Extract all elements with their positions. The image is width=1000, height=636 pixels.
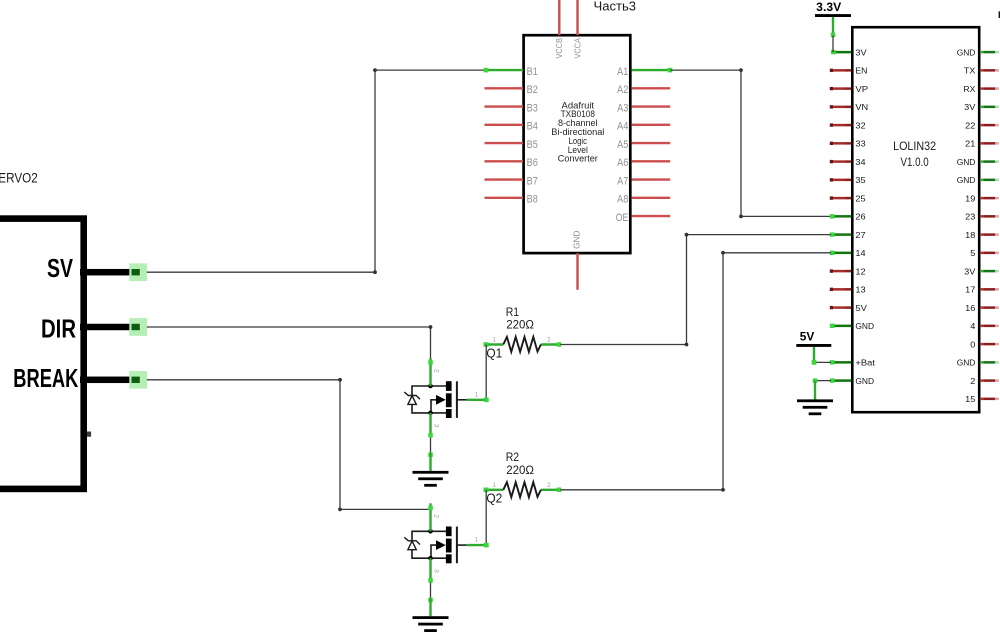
svg-text:12: 12 — [855, 266, 865, 276]
U2 pin +Bat (left row 17) — [830, 358, 876, 368]
wire Q2 source to ground — [428, 583, 433, 616]
Q2 source junction — [428, 556, 433, 561]
wire 5V to U2 pin +Bat — [814, 361, 831, 363]
svg-text:EN: EN — [855, 66, 867, 76]
svg-text:220Ω: 220Ω — [506, 319, 534, 332]
U2 pin 15 (right row 19) — [965, 394, 999, 404]
svg-text:SV: SV — [47, 253, 73, 283]
U2 pin 26 (left row 9) — [830, 212, 866, 222]
svg-text:VCCB: VCCB — [555, 38, 564, 59]
resistor R2 220&#937; — [484, 451, 562, 497]
U2 pin GND (right row 7) — [957, 175, 999, 185]
svg-text:TX: TX — [964, 66, 976, 76]
junction bend (340,379.8) — [338, 378, 342, 382]
svg-text:220Ω: 220Ω — [506, 464, 534, 477]
transistor Q1 N-MOSFET — [404, 358, 488, 438]
svg-text:5V: 5V — [800, 331, 815, 343]
svg-text:17: 17 — [965, 285, 975, 295]
svg-text:27: 27 — [855, 230, 865, 240]
U2 pin 27 (left row 10) — [830, 230, 866, 240]
junction bend (340,509.4) — [338, 508, 342, 512]
U1 pin GND — [572, 231, 582, 290]
pin BREAK of SERVO2 — [13, 363, 147, 393]
svg-text:3: 3 — [432, 424, 439, 428]
svg-text:3V: 3V — [964, 266, 975, 276]
svg-text:32: 32 — [855, 120, 865, 130]
Q2 gate stub (pin 1) — [467, 544, 487, 546]
svg-text:GND: GND — [572, 231, 582, 249]
svg-text:2: 2 — [547, 337, 551, 344]
svg-text:VN: VN — [855, 102, 868, 112]
U1 pin B8 — [485, 194, 538, 206]
svg-text:26: 26 — [855, 212, 865, 222]
wire BREAK to Q2 drain — [147, 378, 431, 511]
wire 3.3V to U2 pin 3V — [832, 36, 834, 53]
svg-text:1: 1 — [475, 537, 479, 544]
U2 pin VP (left row 2) — [830, 84, 869, 94]
U2 pin 5V (left row 14) — [830, 303, 867, 313]
label LOLIN32 V1.0.0 — [893, 139, 936, 169]
svg-text:A7: A7 — [617, 175, 628, 187]
svg-text:33: 33 — [855, 139, 865, 149]
U2 pin RX (right row 2) — [963, 84, 998, 94]
wire DIR to Q1 drain — [147, 325, 433, 361]
junction bend (430.5,327) — [429, 325, 433, 329]
U2 pin GND (left row 15) — [830, 321, 874, 331]
junction bend (375,272) — [373, 270, 377, 274]
U2 pin 16 (right row 14) — [965, 303, 999, 313]
svg-text:22: 22 — [965, 120, 975, 130]
svg-text:A2: A2 — [617, 84, 628, 96]
U1 pin A7 — [617, 175, 670, 187]
svg-text:GND: GND — [957, 175, 976, 185]
U2 pin 3V (right row 12) — [964, 266, 999, 276]
junction bend (723,489.8) — [721, 488, 725, 492]
Q2 body zener diode — [408, 541, 416, 550]
svg-text:1: 1 — [493, 482, 497, 489]
Q2 drain junction — [428, 529, 433, 534]
svg-text:3V: 3V — [964, 102, 975, 112]
U1 pin A5 — [617, 139, 670, 151]
ground symbol GND1 — [413, 471, 449, 487]
U2 pin GND (right row 0) — [957, 47, 999, 57]
svg-text:Q1: Q1 — [486, 345, 502, 360]
svg-text:2: 2 — [547, 482, 551, 489]
U2 pin 19 (right row 8) — [965, 193, 999, 203]
U2 pin GND (right row 17) — [957, 358, 999, 368]
svg-text:13: 13 — [855, 285, 865, 295]
svg-text:3.3V: 3.3V — [816, 2, 841, 14]
junction bend (741,216.4) — [739, 215, 743, 219]
svg-text:3V: 3V — [855, 47, 866, 57]
Q1 source junction — [428, 411, 433, 416]
U2 pin 12 (left row 12) — [830, 266, 866, 276]
svg-text:A8: A8 — [617, 194, 628, 206]
wire SV to B1 — [147, 68, 485, 274]
svg-text:R2: R2 — [506, 451, 519, 464]
svg-text:BREAK: BREAK — [13, 363, 78, 393]
Q2 source stub (pin 3) — [429, 558, 431, 583]
connector J1 SERVO2 body — [0, 219, 84, 489]
U2 pin 35 (left row 7) — [830, 175, 866, 185]
svg-text:A4: A4 — [617, 121, 628, 133]
svg-text:Q2: Q2 — [486, 491, 502, 506]
power symbol 3.3V — [815, 2, 851, 37]
pin SV of SERVO2 — [47, 253, 147, 283]
junction bend (723,252.8) — [721, 251, 725, 255]
U1 pin B6 — [485, 157, 538, 169]
U2 pin 14 (left row 11) — [830, 248, 866, 258]
U2 pin 5 (right row 11) — [970, 248, 998, 258]
svg-text:GND: GND — [957, 47, 976, 57]
svg-text:GND: GND — [855, 321, 874, 331]
svg-text:14: 14 — [855, 248, 865, 258]
svg-text:15: 15 — [965, 394, 975, 404]
Q1 body zener diode — [408, 396, 416, 405]
svg-text:A3: A3 — [617, 102, 628, 114]
resistor R1 220&#937; — [484, 306, 562, 352]
svg-text:2: 2 — [432, 369, 439, 373]
partial label at canvas edge — [999, 11, 1000, 18]
svg-text:R1: R1 — [506, 306, 519, 319]
svg-text:B3: B3 — [527, 102, 538, 114]
IC U1 TXB0108 body — [524, 35, 631, 253]
ground symbol GND3 — [797, 399, 833, 415]
svg-text:B5: B5 — [527, 139, 538, 151]
svg-text:23: 23 — [965, 212, 975, 222]
svg-text:2: 2 — [970, 376, 975, 386]
U2 pin 22 (right row 4) — [965, 120, 999, 130]
junction bend (375,70) — [373, 68, 377, 72]
svg-text:B2: B2 — [527, 84, 538, 96]
junction bend (686.5,344.5) — [685, 343, 689, 347]
Q1 source stub (pin 3) — [429, 413, 431, 438]
svg-text:0: 0 — [970, 339, 975, 349]
U2 pin 18 (right row 10) — [965, 230, 999, 240]
U2 pin 33 (left row 5) — [830, 139, 866, 149]
Q1 drain junction — [428, 384, 433, 389]
svg-text:1: 1 — [493, 337, 497, 344]
svg-text:5V: 5V — [855, 303, 867, 313]
svg-text:5: 5 — [970, 248, 975, 258]
U1 pin B4 — [485, 121, 538, 133]
U2 pin 2 (right row 18) — [970, 376, 998, 386]
svg-text:B8: B8 — [527, 194, 538, 206]
svg-text:16: 16 — [965, 303, 975, 313]
svg-text:VCCA: VCCA — [573, 37, 582, 58]
wire R1 pin1 to Q1 gate — [485, 345, 487, 400]
U2 pin 13 (left row 13) — [830, 285, 866, 295]
U2 pin 0 (right row 16) — [970, 339, 998, 349]
U2 pin 34 (left row 6) — [830, 157, 866, 167]
U2 pin TX (right row 1) — [964, 66, 999, 76]
svg-text:21: 21 — [965, 139, 975, 149]
U1 pin A2 — [617, 84, 670, 96]
U1 pin A1 — [617, 66, 672, 78]
wire R1 pin2 to U2 pin 27 — [560, 233, 831, 347]
svg-text:A5: A5 — [617, 139, 628, 151]
U1 pin B7 — [485, 175, 538, 187]
svg-text:Converter: Converter — [558, 154, 598, 164]
wire A1 to LOLIN pin 26 — [670, 68, 831, 218]
svg-text:DIR: DIR — [41, 313, 76, 343]
Q1 gate stub (pin 1) — [467, 399, 487, 401]
svg-text:25: 25 — [855, 193, 865, 203]
svg-text:4: 4 — [970, 321, 975, 331]
svg-text:B7: B7 — [527, 175, 538, 187]
svg-text:B1: B1 — [527, 66, 538, 78]
svg-text:18: 18 — [965, 230, 975, 240]
svg-text:1: 1 — [475, 391, 479, 398]
Q2 drain stub (pin 2) — [429, 503, 431, 531]
svg-text:B4: B4 — [527, 121, 538, 133]
U1 pin B2 — [485, 84, 538, 96]
svg-text:SERVO2: SERVO2 — [0, 170, 38, 185]
svg-text:V1.0.0: V1.0.0 — [901, 155, 929, 169]
svg-text:GND: GND — [957, 157, 976, 167]
U2 pin 25 (left row 8) — [830, 193, 866, 203]
svg-text:35: 35 — [855, 175, 865, 185]
U1 pin B3 — [485, 102, 538, 114]
U2 pin GND (left row 18) — [830, 376, 874, 386]
svg-text:OE: OE — [616, 212, 629, 224]
svg-text:GND: GND — [855, 376, 874, 386]
svg-text:GND: GND — [957, 358, 976, 368]
svg-text:Часть3: Часть3 — [594, 0, 637, 13]
svg-text:LOLIN32: LOLIN32 — [893, 139, 936, 153]
wire R2 pin2 to U2 pin 14 — [560, 251, 831, 492]
ground symbol GND2 — [413, 616, 449, 632]
svg-text:A1: A1 — [617, 66, 628, 78]
transistor Q2 N-MOSFET — [404, 503, 488, 583]
pin DIR of SERVO2 — [41, 313, 147, 343]
svg-text:34: 34 — [855, 157, 865, 167]
U1 pin A8 — [617, 194, 670, 206]
U2 pin 21 (right row 5) — [965, 139, 999, 149]
svg-text:B6: B6 — [527, 157, 538, 169]
U2 pin VN (left row 3) — [830, 102, 868, 112]
svg-text:19: 19 — [965, 193, 975, 203]
junction bend (741,70) — [739, 68, 743, 72]
svg-text:VP: VP — [855, 84, 868, 94]
U1 pin B1 — [484, 66, 538, 78]
wire Q1 source to ground — [428, 438, 433, 471]
U2 pin EN (left row 1) — [830, 66, 868, 76]
Q1 drain stub (pin 2) — [429, 358, 431, 386]
power symbol 5V — [796, 331, 831, 364]
svg-text:2: 2 — [432, 514, 439, 518]
U1 pin A4 — [617, 121, 670, 133]
U2 pin 4 (right row 15) — [970, 321, 998, 331]
U1 pin B5 — [485, 139, 538, 151]
svg-text:RX: RX — [963, 84, 975, 94]
module U2 LOLIN32 body — [852, 27, 979, 412]
wire U2 GND to ground — [813, 378, 831, 399]
U1 pin A6 — [617, 157, 670, 169]
U2 pin GND (right row 6) — [957, 157, 999, 167]
U2 pin 3V (left row 0) — [831, 47, 867, 57]
U1 pin OE — [616, 212, 671, 224]
svg-text:+Bat: +Bat — [855, 358, 875, 368]
U1 pin VCCB — [555, 0, 564, 59]
U1 pin A3 — [617, 102, 670, 114]
U1 center label — [551, 100, 604, 163]
U2 pin 23 (right row 9) — [965, 212, 999, 222]
svg-text:3: 3 — [432, 569, 439, 573]
U1 pin VCCA — [573, 0, 582, 59]
unlabeled pin of SERVO2 — [87, 432, 91, 437]
U2 pin 3V (right row 3) — [964, 102, 999, 112]
wire R2 pin1 to Q2 gate — [485, 490, 487, 545]
svg-text:A6: A6 — [617, 157, 628, 169]
junction bend (686.5,234.6) — [685, 233, 689, 237]
U2 pin 17 (right row 13) — [965, 285, 999, 295]
U2 pin 32 (left row 4) — [830, 120, 866, 130]
